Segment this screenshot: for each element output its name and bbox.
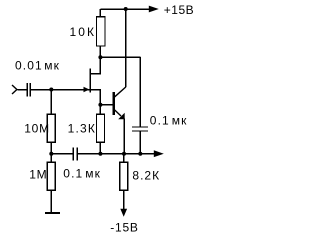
wire bottom left to coupling cap [51, 153, 73, 155]
node dot on top rail [124, 7, 128, 11]
svg-text:0.1мк: 0.1мк [150, 113, 188, 127]
wire 10K top lead [99, 9, 101, 17]
wire coupling cap to node D [78, 153, 101, 155]
wire JFET drain lead [90, 57, 100, 73]
wire 1.3K top lead [99, 105, 101, 115]
transistor Q2 collector diagonal [114, 87, 126, 97]
wire 1M top lead [50, 154, 52, 163]
svg-text:10К: 10К [70, 25, 97, 39]
wire 10M top lead [50, 90, 52, 115]
wire cap C3 top lead vertical [139, 57, 141, 127]
svg-text:8.2К: 8.2К [132, 169, 160, 183]
svg-text:10М: 10М [24, 121, 50, 135]
wire top rail [100, 8, 152, 10]
node E dot source/base [98, 103, 102, 107]
wire 8.2K top lead [123, 154, 125, 163]
capacitor C3 0.1mk output [132, 127, 148, 131]
arrow output [154, 150, 164, 157]
transistor Q1 gate arrow [84, 87, 90, 92]
arrow +15V supply [149, 6, 159, 13]
node C dot 10M/1M [49, 152, 53, 156]
wire JFET source lead [90, 90, 100, 105]
transistor Q2 emitter diagonal [114, 110, 121, 116]
capacitor C1 0.01mk input [27, 83, 30, 97]
wire cap C3 bottom lead [139, 131, 141, 154]
resistor R1 10K [96, 17, 105, 46]
node A dot below 10K [98, 55, 102, 59]
wire drain node horizontal [100, 56, 140, 58]
svg-text:1М: 1М [29, 167, 47, 181]
transistor Q2 emitter arrowhead [118, 113, 125, 120]
transistor Q1 JFET channel [89, 68, 91, 92]
capacitor C2 0.1mk coupling [73, 148, 77, 161]
wire 1.3K bottom lead [99, 142, 101, 153]
node B dot input [49, 88, 53, 92]
arrow -15V supply [120, 209, 127, 217]
wire base lead [100, 104, 113, 106]
svg-text:0.01мк: 0.01мк [15, 59, 60, 73]
wire emitter vertical [123, 119, 125, 154]
svg-text:-15В: -15В [110, 220, 139, 234]
resistor R5 8.2K [120, 162, 128, 190]
node D dot 1.3K bottom [98, 152, 102, 156]
resistor R4 1.3K [96, 114, 104, 142]
wire 1M bottom lead [50, 190, 52, 213]
node F dot emitter/8.2K [122, 152, 126, 156]
wire collector rail vertical [125, 9, 127, 87]
transistor Q2 base bar [113, 92, 115, 115]
wire 10M bottom lead [50, 142, 52, 153]
resistor R2 10M [47, 114, 55, 142]
svg-text:1.3К: 1.3К [68, 121, 96, 135]
svg-text:0.1мк: 0.1мк [63, 166, 101, 180]
input connector chevron [12, 85, 17, 94]
wire 10K bottom lead [99, 46, 101, 57]
ground [45, 212, 60, 214]
wire output line [100, 153, 154, 155]
resistor R3 1M [47, 162, 55, 190]
wire input to gate [31, 89, 92, 91]
wire 8.2K bottom lead [123, 190, 125, 209]
node G dot cap C3 [138, 152, 142, 156]
svg-text:+15В: +15В [164, 3, 193, 17]
wire input line [17, 89, 26, 91]
